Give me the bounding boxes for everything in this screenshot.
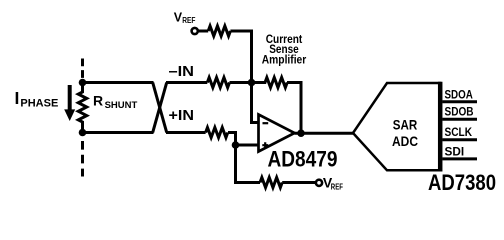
svg-text:I: I bbox=[15, 88, 20, 108]
svg-text:SAR: SAR bbox=[393, 116, 418, 132]
wire crossover to +IN resistor bbox=[166, 131, 206, 134]
resistor bottom V_REF bbox=[260, 178, 282, 188]
terminal V_REF bottom bbox=[316, 180, 322, 186]
resistor feedback bbox=[252, 78, 288, 88]
ADC right edge thick bar bbox=[438, 82, 443, 172]
svg-text:SHUNT: SHUNT bbox=[105, 100, 138, 111]
wire bottom node to crossover bbox=[83, 131, 154, 134]
node A (R_SHUNT top) bbox=[79, 79, 87, 87]
svg-text:AD8479: AD8479 bbox=[268, 147, 338, 172]
dashed phase line (top segment) bbox=[81, 59, 84, 80]
svg-text:REF: REF bbox=[182, 16, 195, 25]
svg-text:SDOB: SDOB bbox=[445, 105, 474, 119]
terminal V_REF top bbox=[192, 28, 198, 34]
wire V_REF terminal to top resistor bbox=[198, 30, 208, 33]
svg-text:–IN: –IN bbox=[169, 64, 195, 80]
op-amp U1 AD8479 triangle bbox=[259, 115, 295, 152]
pin SCLK line bbox=[443, 138, 478, 141]
wire crossover diagonal (top-left to bottom-right) bbox=[153, 83, 167, 133]
svg-text:AD7380: AD7380 bbox=[428, 170, 496, 194]
ADC U2 AD7380 body (pentagon) bbox=[353, 83, 440, 170]
resistor -IN input bbox=[207, 78, 229, 88]
svg-text:REF: REF bbox=[331, 182, 343, 192]
dashed phase line (bottom segment) bbox=[81, 141, 84, 177]
op-amp plus sign bbox=[262, 142, 268, 148]
wire feedback resistor to output node bbox=[287, 83, 301, 134]
I_PHASE arrowhead bbox=[64, 109, 75, 121]
pin SDI line bbox=[443, 157, 478, 160]
wire top resistor down to summing junction bbox=[230, 31, 251, 83]
wire crossover to -IN resistor bbox=[166, 81, 207, 84]
svg-text:SDOA: SDOA bbox=[445, 87, 474, 101]
resistor +IN input bbox=[206, 128, 228, 138]
svg-text:PHASE: PHASE bbox=[20, 98, 58, 110]
node +input junction bbox=[232, 141, 240, 149]
wire top node to crossover bbox=[83, 81, 154, 84]
svg-text:ADC: ADC bbox=[392, 133, 418, 149]
svg-text:R: R bbox=[93, 93, 103, 109]
node B (R_SHUNT bottom) bbox=[79, 129, 87, 137]
pin SDOB line bbox=[443, 118, 478, 121]
node summing junction bbox=[248, 79, 256, 87]
svg-text:SCLK: SCLK bbox=[445, 125, 473, 139]
svg-text:SDI: SDI bbox=[445, 144, 465, 158]
wire -IN resistor to summing junction bbox=[230, 81, 252, 84]
wire crossover diagonal (bottom-left to top-right) bbox=[153, 83, 167, 133]
svg-text:Amplifier: Amplifier bbox=[262, 54, 307, 66]
resistor V_REF top bbox=[208, 26, 230, 36]
wire bottom resistor to V_REF terminal bbox=[282, 181, 316, 184]
svg-text:+IN: +IN bbox=[169, 108, 195, 124]
wire +node down to bottom rail bbox=[236, 145, 261, 183]
I_PHASE arrow shaft bbox=[68, 85, 72, 111]
node output junction bbox=[297, 129, 305, 137]
pin SDOA line bbox=[443, 100, 478, 103]
op-amp minus sign bbox=[263, 122, 269, 124]
resistor R_SHUNT (vertical zigzag) bbox=[78, 83, 86, 133]
wire op-amp output to ADC bbox=[295, 132, 354, 135]
wire +node to op-amp non-inverting input bbox=[236, 144, 260, 147]
wire +IN resistor to +node bbox=[228, 133, 236, 146]
wire junction down to op-amp inverting input bbox=[252, 83, 260, 123]
